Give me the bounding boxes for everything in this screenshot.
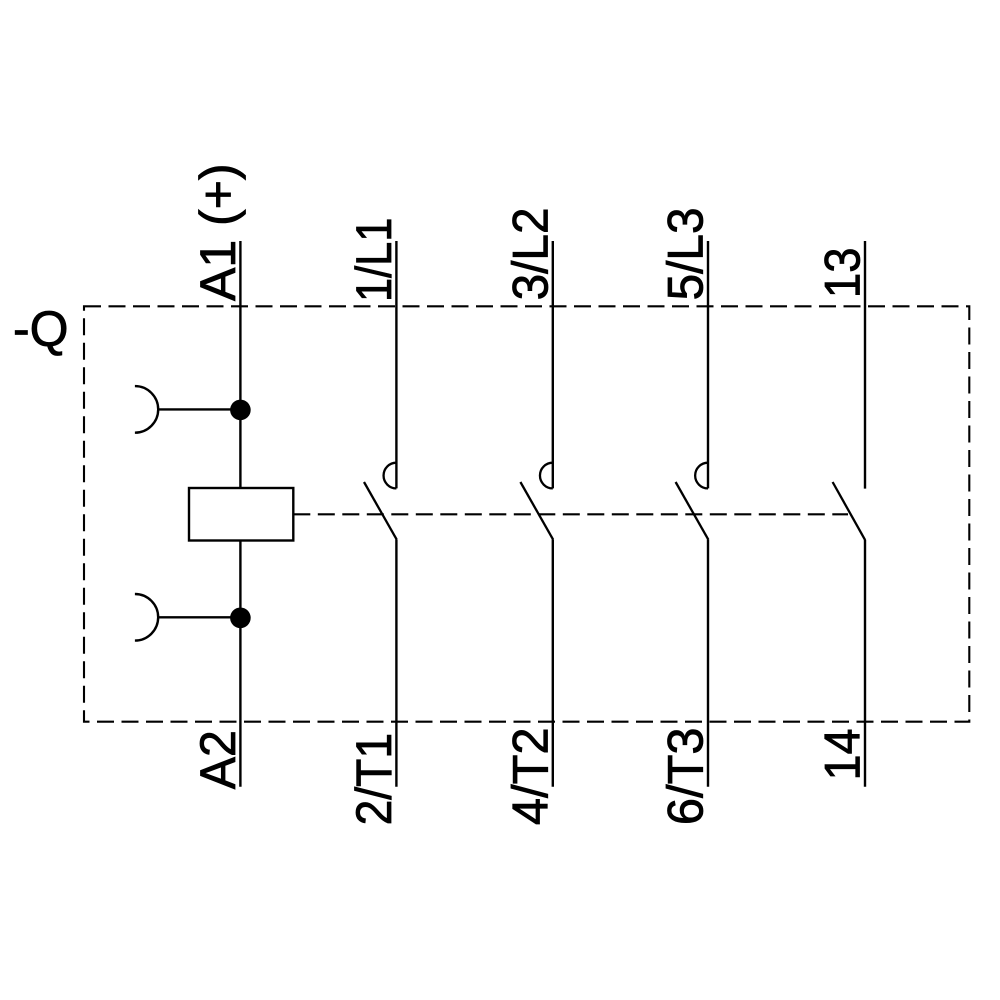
svg-text:5/L3: 5/L3 [658, 207, 714, 300]
svg-text:2/T1: 2/T1 [346, 733, 402, 826]
svg-text:6/T3: 6/T3 [658, 727, 714, 825]
svg-text:A1 (+): A1 (+) [190, 163, 246, 301]
wire 6/T3 lead [707, 540, 709, 787]
wire 14 lead [864, 540, 866, 787]
wire coil tap bottom [158, 616, 240, 618]
svg-text:3/L2: 3/L2 [502, 207, 558, 300]
wire 2/T1 lead [395, 540, 397, 787]
svg-text:-Q: -Q [13, 301, 69, 357]
contactor outline (dashed enclosure) [84, 306, 969, 721]
mechanical linkage (dashed actuator line) [293, 513, 848, 515]
svg-text:1/L1: 1/L1 [346, 218, 402, 302]
svg-text:A2: A2 [190, 730, 246, 789]
contact blade pole 2 [520, 482, 553, 540]
wire A1 lead [239, 241, 241, 488]
main contact arc pole 1 [384, 463, 397, 489]
wire 1/L1 lead [395, 241, 397, 488]
wire 4/T2 lead [552, 540, 554, 787]
wire 3/L2 lead [552, 241, 554, 488]
aux contact blade 13-14 [833, 482, 866, 540]
coil terminal arc top [135, 386, 158, 433]
node junction bottom (A2 tap) [230, 608, 251, 629]
contact blade pole 3 [676, 482, 709, 540]
wire 13 lead [864, 241, 866, 489]
node junction top (A1 tap) [230, 400, 251, 421]
svg-text:4/T2: 4/T2 [502, 727, 558, 825]
wire 5/L3 lead [707, 241, 709, 488]
contact blade pole 1 [364, 482, 397, 540]
coil K1 (operating coil rectangle) [189, 488, 293, 541]
svg-text:14: 14 [815, 728, 871, 780]
wire A2 lead [239, 541, 241, 787]
main contact arc pole 3 [695, 463, 708, 489]
main contact arc pole 2 [540, 463, 553, 489]
svg-text:13: 13 [815, 248, 871, 299]
coil terminal arc bottom [135, 594, 158, 641]
wire coil tap top [158, 408, 240, 410]
